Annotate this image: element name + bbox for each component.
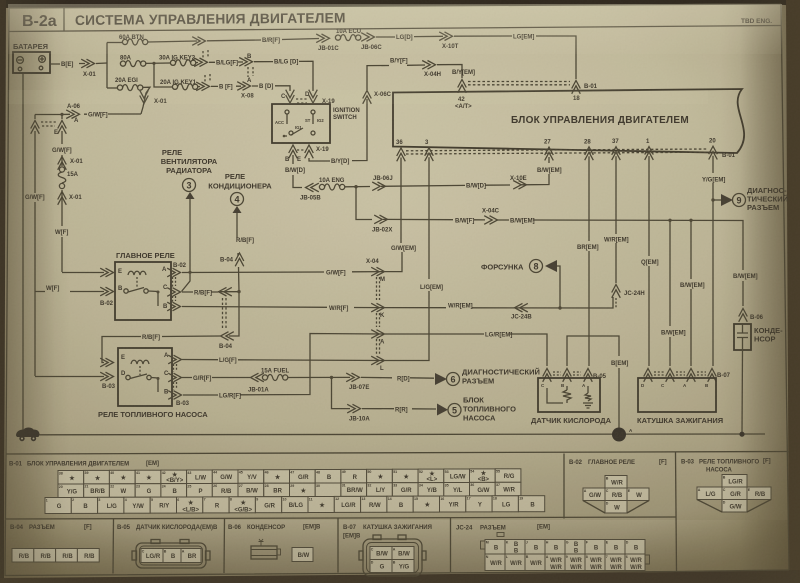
wire into fuel relay D — [35, 376, 104, 378]
wire L/G[F] relay A to X-04 L — [182, 360, 384, 361]
diagnostic connector ref 9 — [713, 199, 721, 201]
connector JB-06C — [361, 33, 374, 42]
wire battery positive to bus — [50, 63, 107, 64]
wire B/W row 2 JB-02X — [356, 187, 372, 220]
battery negative wire down — [22, 73, 24, 430]
wire B/W[EM] to coil C — [669, 220, 671, 366]
injector ref 8 — [557, 266, 560, 308]
wire B/W chain from ignition B pin: 10A ENG — [293, 155, 302, 188]
wire BR[EM] pin28 to sensor A — [588, 156, 590, 366]
B-01 pin grid row 38-55 — [58, 471, 84, 485]
ECU box B-01 БЛОК УПРАВЛЕНИЯ ДВИГАТЕЛЕМ — [393, 89, 744, 153]
wire W[F] into E — [62, 272, 104, 274]
wire B/W[EM] to coil A — [690, 220, 692, 366]
wire L/G[EM] pin3 to X-04 L — [385, 157, 429, 360]
main relay K1 — [115, 251, 175, 320]
fuel relay left chevrons B-03 — [100, 358, 113, 367]
ignition coil B-07 — [637, 369, 731, 426]
radiator fan relay ref 3 — [161, 148, 218, 292]
wire R[D] to diag ref 6 — [361, 376, 434, 379]
connector X-04 column — [366, 259, 385, 372]
connector JB-07E — [346, 373, 359, 382]
node fuse junction — [152, 62, 155, 65]
wire fuse bus vertical — [106, 43, 108, 89]
pin C chevron — [286, 90, 295, 103]
connector X-08 — [237, 82, 250, 91]
oxygen sensor B-05 — [531, 369, 612, 426]
wire W[F] into B — [35, 291, 104, 293]
fuse 15A vertical — [59, 167, 64, 172]
photo shading overlays — [0, 0, 1, 1]
connector X-01 upper — [58, 157, 67, 170]
dashed harness under ECU — [406, 149, 708, 154]
diagnostic connector ref 6 — [435, 373, 447, 385]
wire W/R[EM] pin37 vertical — [615, 156, 617, 283]
pin D chevron — [309, 90, 318, 103]
wire O[EM] pin1 to coil D — [648, 156, 650, 366]
wire R/B[F] relay C row — [182, 292, 239, 336]
main relay right chevrons B-02 — [167, 268, 180, 277]
wire B[EM] from node 24 to sensor B — [567, 336, 619, 428]
condenser C1 — [739, 309, 748, 322]
fuel pump relay K2 — [98, 348, 208, 419]
chassis ground car icon — [16, 427, 40, 441]
wire B/Y[D] from E — [309, 99, 367, 161]
wire LG/R[F] relay B row up to X-04 A — [183, 334, 384, 396]
photo dark edges — [0, 0, 800, 8]
connector X-01 battery — [81, 59, 94, 68]
switch internals — [285, 110, 289, 114]
wire LG[EM] to ECU pin 18 — [454, 36, 576, 79]
wire G/W[EM] pin36 to X-04 M — [385, 158, 402, 272]
node condenser ground — [739, 432, 744, 437]
left W vertical x62 — [61, 115, 63, 273]
wire B [F] — [211, 85, 241, 87]
ignition pins B / E — [289, 145, 298, 158]
wire down to JB-10A — [332, 377, 351, 408]
tables section borders — [5, 452, 789, 576]
title tab B-2a — [63, 8, 65, 31]
battery GB1 — [13, 42, 50, 73]
wire B/LG [D] to ignition D — [254, 61, 313, 91]
wire R/B[F] to fuel relay E — [102, 336, 220, 363]
wire B/Y[F] — [367, 65, 425, 90]
dashed link to B-04 lower — [223, 298, 227, 330]
connector X-04H — [422, 61, 435, 70]
wire B [D] to ignition C — [252, 86, 290, 91]
connector X-06C — [363, 91, 372, 104]
fuel pump block ref 5 — [437, 404, 448, 416]
wire B/LG[F] — [209, 61, 243, 63]
connector JB-01C — [316, 34, 329, 43]
wire O/W[F] relay A to X-04 M — [182, 271, 384, 274]
connector JB-01A — [251, 373, 264, 382]
A/C relay ref 4 — [208, 172, 272, 292]
wire to B/R[F] — [148, 39, 319, 43]
ground line bottom — [37, 433, 765, 436]
B-01 pin grid row 1-19 — [45, 498, 71, 514]
connector X-01 EGI — [140, 90, 149, 103]
fuse 60A BTN — [107, 42, 122, 44]
main relay left chevrons B-02 — [100, 268, 113, 277]
wire Y/G[EM] pin20 — [712, 156, 714, 366]
connector X-01 lower — [58, 192, 67, 205]
connector B — [239, 58, 252, 67]
pin 42 chevron — [458, 80, 467, 93]
node 24 — [612, 428, 626, 442]
pin 18 chevron B-01 — [572, 81, 581, 94]
wire W/R[F] relay B row to X-04 K — [182, 307, 384, 308]
ECU bottom pin chevrons — [397, 148, 406, 161]
connector X-10T — [439, 32, 452, 41]
wire O/R[F] relay C row — [182, 377, 250, 379]
wire LG/R[EM] X-04 A to sensor C — [385, 334, 547, 366]
ignition switch S1 — [272, 90, 360, 143]
wire LG[D] — [376, 35, 443, 38]
injector ref 8 wire W/R row — [385, 297, 613, 308]
left G/W vertical x35 — [34, 115, 36, 377]
B-01 pin grid row 20-37 — [58, 484, 84, 498]
fuel relay right chevrons B-03 — [168, 355, 181, 364]
wire R[R] to fuel pump ref 5 — [362, 408, 436, 410]
wire A-06 row — [35, 113, 141, 116]
wire B/Y[EM] to ECU pin 42 — [437, 65, 462, 79]
